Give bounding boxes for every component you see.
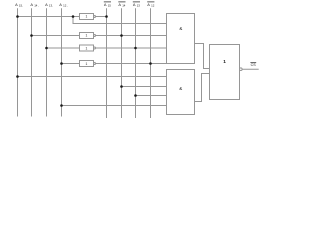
AND gate U6 box (bottom) xyxy=(167,70,195,115)
svg-text:14: 14 xyxy=(122,4,126,8)
svg-text:A: A xyxy=(30,2,33,7)
node A14 bus line xyxy=(31,8,33,116)
junction A15 branch xyxy=(72,15,75,18)
junction A14/inv2 input xyxy=(30,34,33,37)
node NA13 inverted bus line xyxy=(135,8,137,118)
svg-text:A: A xyxy=(59,2,62,7)
wire A13 to inverter U3 input xyxy=(47,47,80,49)
svg-text:1: 1 xyxy=(86,62,88,66)
inverter U2 bubble xyxy=(94,35,96,37)
wire A15 branch down to AND row1 xyxy=(73,17,167,24)
inverter U4 box xyxy=(80,61,94,67)
junction A15 / bottom AND row1 xyxy=(16,75,19,78)
OR gate U7 box xyxy=(210,45,240,100)
junction NA13 / bottom AND row3 xyxy=(134,94,137,97)
svg-text:13: 13 xyxy=(137,4,141,8)
node NA15 inverted bus line xyxy=(106,8,108,118)
inverter U4 bubble xyxy=(94,63,96,65)
inverter U1 box xyxy=(80,14,94,20)
wire A12 to inverter U4 input xyxy=(62,63,80,65)
svg-text:1: 1 xyxy=(86,34,88,38)
svg-text:A: A xyxy=(15,2,18,7)
svg-text:A: A xyxy=(118,2,121,7)
svg-text:A: A xyxy=(45,2,48,7)
svg-text:,: , xyxy=(23,5,24,8)
wire NA13 to bottom AND row3 xyxy=(136,95,167,97)
svg-text:A: A xyxy=(104,2,107,7)
svg-text:1: 1 xyxy=(223,59,226,65)
junction inv3 out / NA13 xyxy=(134,47,137,50)
node A12 bus line xyxy=(61,8,63,116)
wire OR bubble to CS output xyxy=(242,68,259,70)
junction A12 / bottom AND row4 xyxy=(60,104,63,107)
inverter U3 box xyxy=(80,45,94,51)
node NA12 inverted bus line xyxy=(150,8,152,118)
wire A15 to inverter U1 input xyxy=(18,16,80,18)
svg-text:&: & xyxy=(179,26,182,31)
junction A13/inv3 input xyxy=(45,47,48,50)
svg-text:,: , xyxy=(38,5,39,8)
wire A14 to inverter U2 input xyxy=(32,35,80,37)
svg-text:&: & xyxy=(179,86,182,91)
wire NA14 to bottom AND row2 xyxy=(122,86,167,88)
OR gate U7 output bubble xyxy=(240,68,243,71)
junction A12/inv4 input xyxy=(60,62,63,65)
inverter U2 box xyxy=(80,33,94,39)
wire A12 to bottom AND row4 xyxy=(62,105,167,107)
svg-text:,: , xyxy=(53,5,54,8)
wire top AND output to OR input1 xyxy=(195,44,210,69)
svg-text:CS: CS xyxy=(251,63,257,67)
junction inv4 out / NA12 xyxy=(149,62,152,65)
svg-text:1: 1 xyxy=(86,14,88,18)
inverter U3 bubble xyxy=(94,47,96,49)
svg-text:A: A xyxy=(133,2,136,7)
svg-text:,: , xyxy=(67,5,68,8)
wire inverter U3 output to top AND row3 xyxy=(95,47,166,49)
node NA14 inverted bus line xyxy=(121,8,123,118)
node A15 bus line xyxy=(17,8,19,116)
svg-text:12: 12 xyxy=(151,4,155,8)
wire inverter U1 output to NA15 xyxy=(95,16,106,18)
wire inverter U2 output to top AND row2 xyxy=(95,35,166,37)
junction inv1 out / NA15 xyxy=(105,15,108,18)
AND gate U5 box (top) xyxy=(167,14,195,64)
inverter U1 bubble xyxy=(94,16,96,18)
wire bottom AND output to OR input2 xyxy=(195,74,210,102)
wire A15 to bottom AND row1 xyxy=(18,76,167,78)
svg-text:15: 15 xyxy=(108,4,112,8)
node A13 bus line xyxy=(46,8,48,116)
svg-text:1: 1 xyxy=(86,47,88,51)
junction NA14 / bottom AND row2 xyxy=(120,85,123,88)
junction inv2 out / NA14 xyxy=(120,34,123,37)
svg-text:A: A xyxy=(147,2,150,7)
junction A15/inv1 input xyxy=(16,15,19,18)
wire inverter U4 output to top AND row4 xyxy=(95,63,166,65)
